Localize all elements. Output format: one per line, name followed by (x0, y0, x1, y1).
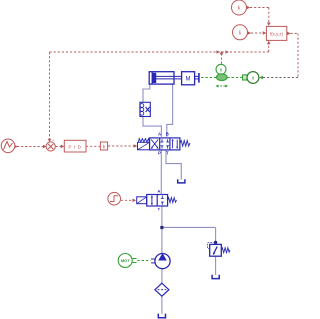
svg-text:-: - (44, 148, 46, 153)
svg-text:A: A (157, 188, 160, 193)
svg-text:P I D: P I D (68, 144, 81, 149)
svg-text:MOT: MOT (121, 259, 130, 263)
svg-text:B: B (166, 132, 169, 137)
svg-text:P: P (158, 151, 161, 156)
svg-text:f(x,y,z): f(x,y,z) (270, 31, 283, 36)
svg-text:T: T (158, 206, 161, 211)
svg-text:M: M (186, 77, 191, 83)
svg-text:+: + (52, 138, 55, 143)
svg-text:T: T (166, 151, 169, 156)
svg-text:A: A (158, 132, 161, 137)
